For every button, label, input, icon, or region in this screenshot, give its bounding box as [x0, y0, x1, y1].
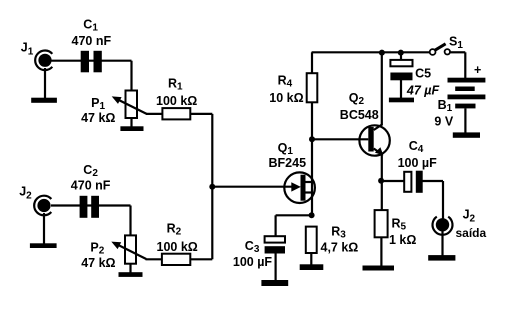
- svg-text:BF245: BF245: [269, 156, 307, 170]
- svg-text:100 kΩ: 100 kΩ: [157, 240, 198, 254]
- svg-text:47 µF: 47 µF: [406, 83, 440, 97]
- svg-text:10 kΩ: 10 kΩ: [269, 91, 303, 105]
- svg-text:C5: C5: [415, 66, 431, 80]
- svg-text:470 nF: 470 nF: [72, 34, 112, 48]
- svg-text:4,7 kΩ: 4,7 kΩ: [321, 240, 359, 254]
- svg-text:100 µF: 100 µF: [233, 255, 273, 269]
- svg-text:saída: saída: [456, 226, 487, 240]
- svg-text:100 µF: 100 µF: [398, 156, 438, 170]
- svg-text:9 V: 9 V: [434, 115, 453, 129]
- svg-text:100 kΩ: 100 kΩ: [156, 94, 197, 108]
- svg-text:470 nF: 470 nF: [71, 179, 111, 193]
- svg-text:+: +: [474, 63, 481, 77]
- svg-text:1 kΩ: 1 kΩ: [389, 233, 416, 247]
- svg-text:47 kΩ: 47 kΩ: [81, 256, 115, 270]
- svg-text:47 kΩ: 47 kΩ: [81, 111, 115, 125]
- svg-text:BC548: BC548: [340, 108, 379, 122]
